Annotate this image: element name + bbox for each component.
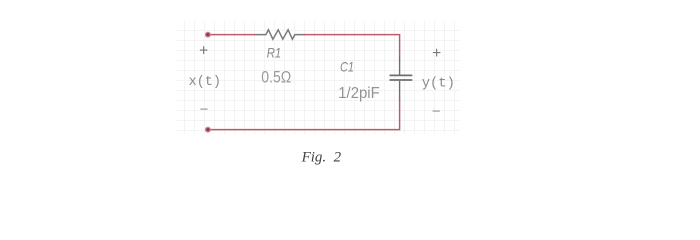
svg-text:R1: R1 [267,45,282,61]
svg-text:y(t): y(t) [422,75,455,91]
svg-text:+: + [199,43,208,60]
svg-text:–: – [200,100,208,115]
svg-text:+: + [432,45,441,62]
svg-text:1/2piF: 1/2piF [338,85,380,102]
svg-text:0.5Ω: 0.5Ω [261,69,291,87]
svg-text:–: – [433,103,441,118]
svg-text:Fig. 2: Fig. 2 [301,150,342,166]
svg-text:x(t): x(t) [189,75,221,90]
svg-text:C1: C1 [340,59,354,75]
